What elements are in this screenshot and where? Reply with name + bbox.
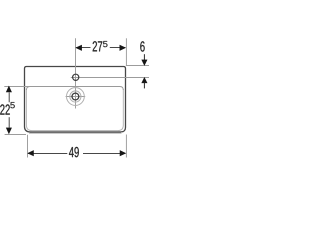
dimension 49 line left part	[28, 153, 67, 155]
extension line 22.5 bottom	[5, 134, 26, 136]
extension line 6 top	[126, 65, 149, 67]
label 6	[140, 41, 144, 51]
extension line 22.5 top	[4, 86, 30, 88]
tap hole centerline horizontal / extension line 6 bottom	[71, 77, 149, 79]
dimension 27.5 line left part	[76, 47, 90, 49]
dimension 27.5 line right part	[110, 47, 125, 49]
dimension 22.5 lower arrow (down)	[8, 117, 10, 127]
centerline vertical through tap and drain (extension of 27.5 dim)	[75, 38, 77, 108]
label 22.5	[0, 104, 10, 114]
dimension 6 lower arrow (up)	[142, 78, 147, 83]
washbasin inner bowl back edge	[26, 87, 123, 91]
arrow 49 right	[120, 151, 126, 156]
drain middle circle	[70, 91, 81, 102]
front edge reinforcement	[30, 131, 122, 133]
label 49	[69, 147, 79, 157]
washbasin inner bowl sides and front	[26, 89, 123, 131]
dimension 22.5 upper arrow (up)	[6, 86, 11, 92]
drain inner circle	[72, 93, 79, 100]
drain outer circle	[67, 88, 85, 106]
extension line 49 right	[125, 135, 127, 158]
front edge soft underline	[29, 132, 122, 134]
arrow 49 left	[28, 151, 34, 156]
extension line 27.5 right	[125, 38, 127, 66]
drain crosshair horizontal	[66, 96, 86, 98]
arrow 27.5 left	[76, 45, 82, 50]
tap hole	[73, 74, 79, 80]
extension line 49 left	[27, 135, 29, 158]
dimension 49 line right part	[83, 153, 125, 155]
arrow 27.5 right	[120, 45, 126, 50]
washbasin outer rim (top view)	[25, 67, 126, 132]
dimension 6 upper arrow (down)	[143, 54, 145, 60]
label 27.5	[93, 41, 103, 51]
